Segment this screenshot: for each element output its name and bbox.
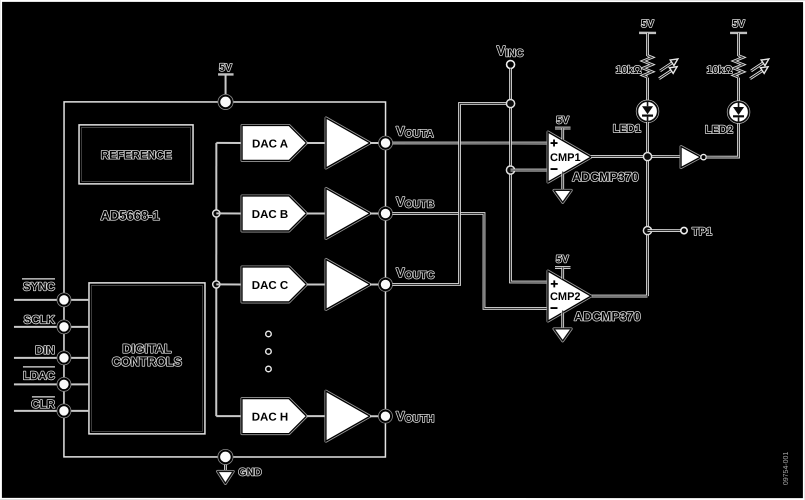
svg-text:DIN: DIN [35,345,55,357]
wire VOUTB to CMP2 minus [392,213,548,308]
buffer amp A [326,118,370,168]
wire VINC down to CMP2 plus [510,69,548,283]
svg-text:SYNC: SYNC [23,281,55,293]
wire to TP1 [648,229,682,232]
svg-text:DIGITAL: DIGITAL [122,342,171,356]
pin SCLK [14,314,89,334]
arrows beside R2 [750,59,769,79]
label ADCMP370 (CMP2) [574,310,641,324]
svg-text:DAC A: DAC A [252,138,288,150]
wire DAC B input [216,212,242,214]
svg-text:ADCMP370: ADCMP370 [572,170,639,184]
wire DAC H input [216,415,242,417]
wire LED1 down / CMP2 output riser [591,122,648,296]
label ADCMP370 (CMP1) [572,170,639,184]
wire DAC C to buffer [306,283,326,285]
wire buffer A to VOUTA [370,142,385,144]
comparator CMP1 ADCMP370 [548,132,591,182]
pin CLR [14,397,89,418]
svg-text:10kΩ: 10kΩ [616,64,642,76]
svg-text:LED1: LED1 [613,123,641,135]
LED1 [613,100,659,135]
comparator CMP2 ADCMP370 [548,271,591,321]
wire VOUTA to CMP1 plus [393,142,549,145]
node VOUTC [378,265,434,292]
pin SYNC [14,279,89,307]
svg-text:DAC C: DAC C [252,280,288,292]
LED2 [705,101,750,136]
5V supply CMP2 [555,254,571,280]
resistor R1 10kΩ [616,56,652,78]
wire DAC H to buffer [306,415,326,417]
svg-text:GND: GND [238,466,262,478]
wire R2 to LED2 [737,78,740,102]
terminal VINC [497,43,524,69]
bus wire to DAC inputs [215,143,217,416]
inverter buffer [681,147,706,168]
svg-text:10kΩ: 10kΩ [707,64,733,76]
wire VINC to CMP1 minus [511,169,548,172]
resistor R2 10kΩ [707,56,743,78]
buffer amp C [326,259,370,309]
svg-text:LDAC: LDAC [23,370,55,382]
svg-text:AD5668-1: AD5668-1 [101,208,160,223]
5V supply main box [218,62,234,97]
pin DIN [14,345,89,365]
DAC H block [242,399,307,434]
junction dot VINC / CMP1 minus [506,166,514,174]
svg-text:5V: 5V [219,62,232,74]
svg-text:REFERENCE: REFERENCE [101,150,172,162]
node 5V on top edge [218,94,233,109]
DAC C block [242,267,307,302]
node GND on bottom edge [218,449,233,464]
wire inverter to LED2 [707,122,739,157]
wire buffer C to VOUTC [370,283,385,285]
wire DAC A to buffer [307,142,327,144]
buffer amp B [326,188,370,238]
ground CMP1 [554,172,571,203]
svg-text:CMP2: CMP2 [550,291,581,303]
svg-text:09754-001: 09754-001 [783,452,790,486]
pin LDAC [14,367,89,392]
wire buffer H to VOUTH [370,415,385,417]
node VOUTH [378,408,434,425]
wire buffer B to VOUTB [370,212,385,214]
main box AD5668-1 outline [64,102,386,457]
svg-text:DAC B: DAC B [252,209,288,221]
svg-text:SCLK: SCLK [24,314,56,326]
junction dot CMP1 output [643,152,651,160]
junction dot DAC C input [213,281,220,288]
wire R1 to LED1 [646,78,649,101]
ground GND [218,462,263,484]
reference box [79,125,193,184]
label AD5668-1 [101,208,160,223]
junction dot VINC / VOUTC [506,99,514,107]
svg-text:CONTROLS: CONTROLS [112,355,182,369]
svg-text:5V: 5V [556,115,569,127]
digital controls box [89,283,205,434]
node VOUTA [379,123,435,150]
ellipsis dots [266,331,272,372]
svg-text:5V: 5V [641,18,654,30]
svg-text:ADCMP370: ADCMP370 [574,310,641,324]
wire VOUTC to VINC net [392,103,510,284]
wire DAC A input [216,142,242,144]
svg-text:TP1: TP1 [692,226,712,238]
figure code [783,452,790,486]
buffer amp H [326,391,370,441]
wire CMP1 output to inverter [591,155,681,158]
svg-text:5V: 5V [732,18,745,30]
DAC B block [242,196,307,231]
svg-text:DAC H: DAC H [252,412,288,424]
svg-text:CMP1: CMP1 [550,152,581,164]
wire DAC C input [216,283,242,285]
5V supply CMP1 [555,115,571,140]
node VOUTB [379,194,435,221]
5V supply LED2 column [730,18,747,56]
arrows beside R1 [659,59,678,79]
svg-text:LED2: LED2 [705,124,733,136]
test point TP1 [681,226,712,238]
5V supply LED1 column [639,18,656,56]
svg-text:5V: 5V [556,254,569,266]
junction dot TP1 [643,226,651,234]
ground CMP2 [554,311,571,341]
wire DAC B to buffer [307,212,327,214]
svg-text:CLR: CLR [31,399,55,411]
junction dot DAC B input [213,210,220,217]
DAC A block [242,125,307,160]
